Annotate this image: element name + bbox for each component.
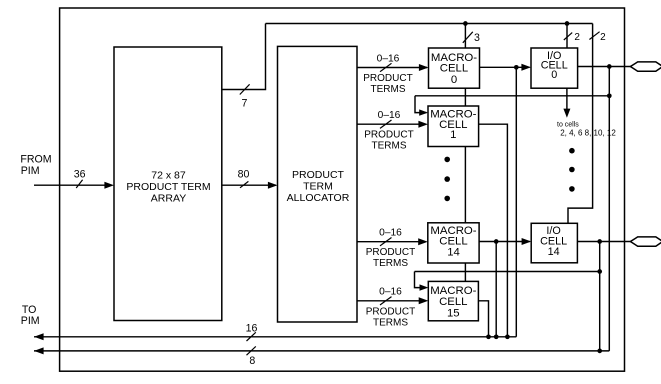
wire macrocell 14 bottom to macrocell 15 top <box>464 263 466 281</box>
wire 8 I/O feedbacks to PIM <box>34 350 609 352</box>
wire drop to I/O cell 0 top <box>566 24 568 49</box>
svg-text:72 x 87: 72 x 87 <box>151 169 186 181</box>
svg-text:80: 80 <box>238 169 250 181</box>
arrowhead macrocell 14 output into I/O cell 14 <box>522 238 532 245</box>
junction dot I/O cell 14 output feedback <box>597 239 602 244</box>
wire allocator output 4 <box>357 300 425 302</box>
svg-text:2, 4, 6 8, 10, 12: 2, 4, 6 8, 10, 12 <box>560 129 616 138</box>
junction dot macrocell 15 feedback on 16 bus <box>486 334 491 339</box>
svg-text:14: 14 <box>447 246 460 258</box>
wire OE rail to I/O cell 14 <box>568 24 593 224</box>
svg-text:CELL: CELL <box>440 63 468 75</box>
bus slash allocator line 2 <box>380 120 392 128</box>
bus slash 36 <box>76 180 82 188</box>
junction dot I/O cell 14 feedback on 8 bus <box>597 349 602 354</box>
arrowhead chain elbow into macrocell 1 <box>419 109 428 115</box>
junction dot macrocell 14 output feedback <box>494 239 499 244</box>
svg-text:7: 7 <box>241 97 247 109</box>
svg-text:PIM: PIM <box>21 165 40 177</box>
junction dot macrocell 14 feedback on 16 bus <box>494 334 499 339</box>
svg-text:PRODUCT: PRODUCT <box>364 130 413 141</box>
wire macrocell 0 output to I/O cell 0 <box>480 66 530 68</box>
svg-text:0–16: 0–16 <box>378 110 401 121</box>
junction dot top rail / I/O cell 0 <box>565 21 570 26</box>
wire allocator output 1 <box>357 67 427 69</box>
arrowhead 36 into array <box>104 182 114 189</box>
wire macrocell 0 bottom to macrocell 1 top <box>464 88 466 106</box>
svg-text:2: 2 <box>600 32 606 43</box>
svg-text:15: 15 <box>447 307 460 319</box>
bus slash 3 <box>463 32 473 43</box>
wire I/O cell 0 output to pad <box>578 66 631 68</box>
wire macrocell 14 chain rail <box>415 271 600 273</box>
wire I/O cell 14 output to pad <box>577 241 631 243</box>
svg-text:14: 14 <box>548 246 560 258</box>
junction dot top rail / macrocell 0 <box>463 21 468 26</box>
wire macrocell 14 output to I/O cell 14 <box>479 241 530 243</box>
product term array box <box>114 47 222 321</box>
arrowhead 8 feedback to PIM <box>34 347 44 354</box>
wire chain elbow into macrocell 1 <box>415 96 427 113</box>
bus slash 8 <box>247 346 256 355</box>
arrowhead allocator line 4 into macrocell 15 <box>419 297 429 304</box>
wire macrocell 1 bottom to macrocell 14 top <box>464 147 466 223</box>
svg-text:1: 1 <box>450 129 456 141</box>
ellipsis dots I/O column <box>569 148 575 154</box>
svg-text:FROM: FROM <box>20 153 51 165</box>
wire 36 inputs from PIM <box>34 184 112 186</box>
bus slash allocator line 1 <box>380 63 392 71</box>
svg-text:0–16: 0–16 <box>379 287 402 298</box>
arrowhead macrocell 0 output into I/O cell 0 <box>521 64 531 71</box>
arrowhead allocator line 1 into macrocell 0 <box>419 64 429 71</box>
wire macrocell 1 output feedback <box>479 124 508 337</box>
svg-text:36: 36 <box>74 169 86 181</box>
bus slash 80 <box>240 181 248 187</box>
macrocell 14 <box>428 223 479 263</box>
svg-text:0–16: 0–16 <box>379 228 402 239</box>
svg-text:0: 0 <box>451 74 457 86</box>
junction dot macrocell 0 output feedback <box>514 65 519 70</box>
svg-text:16: 16 <box>246 323 258 335</box>
svg-text:TERMS: TERMS <box>371 84 406 95</box>
junction dot chain rail / I/O feedback <box>607 93 612 98</box>
wire I/O cell 14 feedback vertical <box>599 242 601 351</box>
wire I/O cell 0 feedback vertical <box>608 67 610 351</box>
svg-text:PRODUCT: PRODUCT <box>363 73 412 84</box>
svg-text:CELL: CELL <box>439 296 467 308</box>
product term allocator box <box>278 46 358 322</box>
svg-text:8: 8 <box>249 355 255 367</box>
svg-text:0–16: 0–16 <box>377 53 400 64</box>
wire macrocell 14 feedback vertical <box>495 242 497 337</box>
svg-text:ARRAY: ARRAY <box>151 192 186 204</box>
arrowhead chain elbow into macrocell 15 <box>420 284 429 290</box>
svg-text:TERMS: TERMS <box>373 317 408 328</box>
svg-text:TERMS: TERMS <box>373 258 408 269</box>
wire macrocell 15 output feedback <box>478 301 488 337</box>
bus slash allocator line 3 <box>380 238 392 246</box>
arrowhead 16 feedback to PIM <box>34 333 44 340</box>
wire allocator output 3 <box>357 241 425 243</box>
bus slash allocator line 4 <box>380 297 392 305</box>
svg-text:0: 0 <box>551 69 557 81</box>
wire macrocell 0 chain rail <box>415 95 609 97</box>
ellipsis dots macrocell column <box>444 157 450 163</box>
arrowhead I/O cell 0 to even cells <box>563 109 570 118</box>
svg-text:TERMS: TERMS <box>372 141 407 152</box>
I/O pad 14 <box>630 237 661 246</box>
wire 7-bit expander bus from array <box>222 24 266 90</box>
junction dot chain rail 14 / I/O feedback <box>597 269 602 274</box>
arrowhead allocator line 3 into macrocell 14 <box>418 238 428 245</box>
bus slash 7 <box>240 84 250 94</box>
svg-text:2: 2 <box>574 32 580 43</box>
wire I/O cell 0 to even cells <box>566 88 568 109</box>
I/O pad 0 <box>630 62 661 71</box>
svg-text:PIM: PIM <box>21 315 40 327</box>
wire drop to macrocell 0 top <box>464 24 466 49</box>
svg-text:to cells: to cells <box>557 121 579 128</box>
svg-text:TERM: TERM <box>303 181 333 193</box>
wire top rail node <box>266 23 593 25</box>
svg-text:ALLOCATOR: ALLOCATOR <box>287 192 350 204</box>
wire chain elbow into macrocell 15 <box>415 272 427 288</box>
junction dot I/O cell 0 output feedback <box>607 64 612 69</box>
macrocell 1 <box>428 106 479 147</box>
wire macrocell 0 feedback vertical <box>515 67 517 337</box>
wire allocator output 2 <box>357 123 425 125</box>
junction dot macrocell 1 feedback on 16 bus <box>505 334 510 339</box>
svg-text:3: 3 <box>474 32 480 44</box>
svg-text:PRODUCT: PRODUCT <box>292 169 345 181</box>
bus slash 16 <box>247 332 256 341</box>
label to cells 2,4,6,8,10,12 <box>557 121 616 137</box>
svg-text:PRODUCT TERM: PRODUCT TERM <box>126 181 210 193</box>
svg-text:PRODUCT: PRODUCT <box>366 247 415 258</box>
macrocell 15 <box>428 281 478 320</box>
wire 80 product terms to allocator <box>222 184 276 186</box>
arrowhead allocator line 2 into macrocell 1 <box>418 121 428 128</box>
bus slash 2 right <box>589 32 599 40</box>
macrocell 0 <box>429 48 480 88</box>
I/O cell 0 <box>531 48 578 88</box>
bus slash 2 left <box>564 33 572 40</box>
wire 16 macrocell feedbacks to PIM <box>34 336 516 338</box>
I/O cell 14 <box>531 223 577 262</box>
svg-text:PRODUCT: PRODUCT <box>366 306 415 317</box>
arrowhead 80 into allocator <box>268 182 278 189</box>
